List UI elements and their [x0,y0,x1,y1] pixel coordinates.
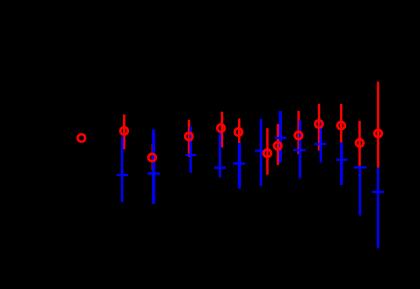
blue errorbar D [189,127,191,173]
blue tick H [293,149,305,151]
blue errorbar B [121,137,123,203]
blue errorbar C [152,130,155,204]
blue tick B [117,174,128,176]
blue tick E [214,167,226,169]
blue errorbar G1 [260,119,262,186]
red point H [295,132,303,140]
red errorbar F [238,119,240,144]
red point G2 [274,142,282,150]
blue errorbar J [340,143,343,186]
red point A [78,134,86,142]
red errorbar H [297,111,299,155]
blue errorbar M [377,168,379,249]
red errorbar E [221,112,223,148]
blue tick D [186,154,196,156]
red point K [356,139,364,147]
red errorbar J [340,104,342,143]
red errorbar K [358,121,360,166]
red errorbar I [318,104,320,151]
red point M [374,130,382,138]
blue tick M [372,191,384,193]
red errorbar G1 [266,128,268,175]
blue errorbar F [238,143,241,189]
blue tick I [315,143,327,145]
red point F [235,128,243,136]
blue tick G1 [255,150,267,152]
blue tick J [336,159,347,161]
blue errorbar E [219,131,221,178]
blue errorbar K [359,166,361,215]
red errorbar G2 [277,124,279,165]
red errorbar C [152,144,154,170]
red point I [315,120,323,128]
blue errorbar H [299,120,302,178]
blue tick G2 [275,137,287,139]
blue tick C [148,173,161,175]
red point J [337,122,345,130]
red point D [185,133,193,141]
blue tick K [354,166,367,168]
red point C [148,154,156,162]
blue tick F [233,163,245,165]
red errorbar D [188,120,190,157]
blue errorbar G2 [279,111,282,162]
red point E [217,124,225,132]
red point B [120,127,128,135]
red point G1 [264,149,272,157]
blue errorbar I [320,124,322,163]
red errorbar B [123,115,125,150]
red errorbar M [377,82,379,168]
